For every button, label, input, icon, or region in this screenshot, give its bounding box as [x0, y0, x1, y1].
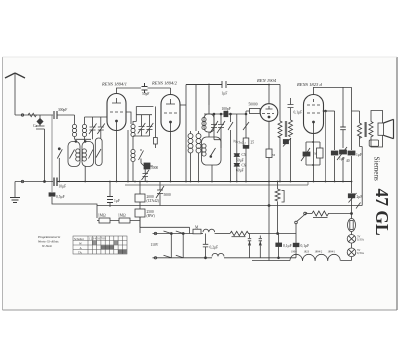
- svg-text:Schalter: Schalter: [74, 237, 84, 241]
- svg-text:300pF: 300pF: [58, 108, 67, 112]
- svg-text:1894/2: 1894/2: [315, 251, 323, 254]
- svg-text:40: 40: [346, 159, 350, 163]
- svg-text:Ca: Ca: [33, 124, 37, 128]
- svg-text:RENS 1894/2: RENS 1894/2: [151, 81, 178, 86]
- svg-text:50000: 50000: [249, 103, 258, 107]
- svg-text:1MΩ: 1MΩ: [98, 214, 106, 218]
- svg-text:C5: C5: [242, 153, 246, 157]
- svg-text:(BW): (BW): [147, 214, 156, 218]
- svg-text:1µF: 1µF: [356, 153, 362, 157]
- svg-text:W: W: [79, 241, 82, 245]
- svg-text:47 GL: 47 GL: [372, 189, 392, 236]
- svg-text:Eingeklammerte: Eingeklammerte: [37, 235, 61, 239]
- svg-text:5000: 5000: [164, 193, 171, 197]
- svg-text:0,35A: 0,35A: [357, 239, 364, 242]
- svg-text:10µF: 10µF: [59, 185, 67, 189]
- svg-text:110V: 110V: [151, 243, 159, 247]
- svg-text:5000: 5000: [151, 166, 158, 170]
- svg-text:1904: 1904: [291, 251, 297, 254]
- svg-text:100pF: 100pF: [222, 107, 231, 111]
- svg-text:Werte Gl-Allstr.: Werte Gl-Allstr.: [38, 240, 59, 244]
- svg-text:RENS 1894/1: RENS 1894/1: [101, 82, 127, 87]
- svg-text:W-Netz: W-Netz: [42, 244, 53, 248]
- svg-text:C6: C6: [242, 164, 246, 168]
- svg-text:1µF: 1µF: [222, 92, 228, 96]
- svg-text:1823: 1823: [304, 251, 310, 254]
- svg-text:Siemens: Siemens: [372, 157, 380, 182]
- svg-text:(LTA42): (LTA42): [147, 199, 160, 203]
- svg-text:50µF: 50µF: [236, 159, 244, 163]
- svg-text:1MΩ: 1MΩ: [118, 214, 126, 218]
- svg-text:RENS 1823 d: RENS 1823 d: [296, 82, 322, 87]
- svg-text:1 2 3 4 5 6 7 8 9: 1 2 3 4 5 6 7 8 9: [89, 238, 107, 241]
- svg-text:1µF: 1µF: [114, 199, 120, 203]
- svg-text:50pF: 50pF: [142, 92, 149, 96]
- svg-text:2µF: 2µF: [357, 195, 363, 199]
- svg-text:60µF: 60µF: [236, 169, 244, 173]
- svg-text:25: 25: [251, 141, 255, 145]
- svg-text:1µF: 1µF: [339, 157, 345, 161]
- svg-text:0,35A: 0,35A: [357, 252, 364, 255]
- svg-text:REN 1904: REN 1904: [256, 78, 277, 83]
- svg-text:1894/1: 1894/1: [328, 251, 336, 254]
